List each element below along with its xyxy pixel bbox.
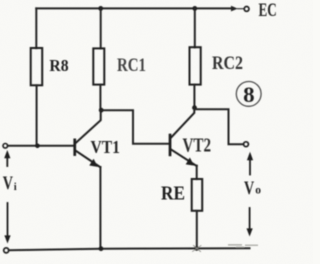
svg-text:RE: RE <box>161 183 185 205</box>
svg-text:i: i <box>14 182 17 193</box>
wire RC2 top lead <box>194 8 196 47</box>
wire VT1 base lead <box>8 145 74 147</box>
svg-text:RC1: RC1 <box>117 55 146 76</box>
svg-text:VT1: VT1 <box>91 137 121 157</box>
svg-text:8: 8 <box>243 82 255 107</box>
arrowhead on EC lead <box>231 6 238 12</box>
terminal Vo (open circle) <box>244 142 249 147</box>
wire node C1 to VT2 base <box>101 110 169 144</box>
svg-text:EC: EC <box>259 0 277 21</box>
wire VT2 emitter to RE <box>196 166 198 180</box>
junction ground / RE <box>194 246 199 251</box>
junction node collector VT1 <box>99 108 104 113</box>
junction top rail / RC2 <box>192 6 197 11</box>
terminal input (open circle) <box>3 144 8 149</box>
wire bottom ground rail <box>9 248 250 250</box>
wire node C2 to output terminal <box>195 109 244 144</box>
svg-text:o: o <box>255 185 261 197</box>
resistor R8 body <box>31 48 43 85</box>
wire RC1 top lead <box>100 8 102 48</box>
arrow Vo down <box>247 208 253 237</box>
resistor RE body <box>192 179 203 211</box>
junction input / R8 <box>35 144 40 149</box>
wire RC1 bottom lead <box>99 85 101 111</box>
svg-text:VT2: VT2 <box>183 134 212 156</box>
wire R8 bottom lead <box>36 85 38 146</box>
junction ground / VT1 emitter <box>99 246 104 251</box>
terminal EC (open circle) <box>244 6 249 11</box>
wire VT1 emitter to ground rail <box>99 167 101 249</box>
label Vo <box>244 178 261 199</box>
svg-text:V: V <box>3 173 13 194</box>
watermark smudge <box>193 244 259 251</box>
label Vi <box>3 173 17 194</box>
transistor VT2 <box>169 108 197 166</box>
junction node collector VT2 <box>192 105 197 110</box>
svg-text:R8: R8 <box>49 56 68 75</box>
arrow Vi up <box>4 150 10 166</box>
terminal ground left (open circle) <box>4 248 9 253</box>
svg-text:V: V <box>244 178 254 199</box>
junction top rail / RC1 <box>98 6 103 11</box>
resistor RC1 body <box>93 48 104 84</box>
node marker circled 8 <box>236 82 261 107</box>
resistor RC2 body <box>190 47 201 84</box>
svg-text:RC2: RC2 <box>212 53 243 74</box>
wire RC2 bottom lead <box>193 85 195 108</box>
wire top supply rail <box>36 7 233 9</box>
transistor VT1 <box>73 110 100 167</box>
wire RE bottom lead <box>196 211 198 249</box>
arrow Vo up <box>247 152 253 175</box>
wire EC terminal lead <box>238 8 244 10</box>
arrow Vi down <box>4 203 10 244</box>
wire R8 top lead <box>35 8 37 48</box>
